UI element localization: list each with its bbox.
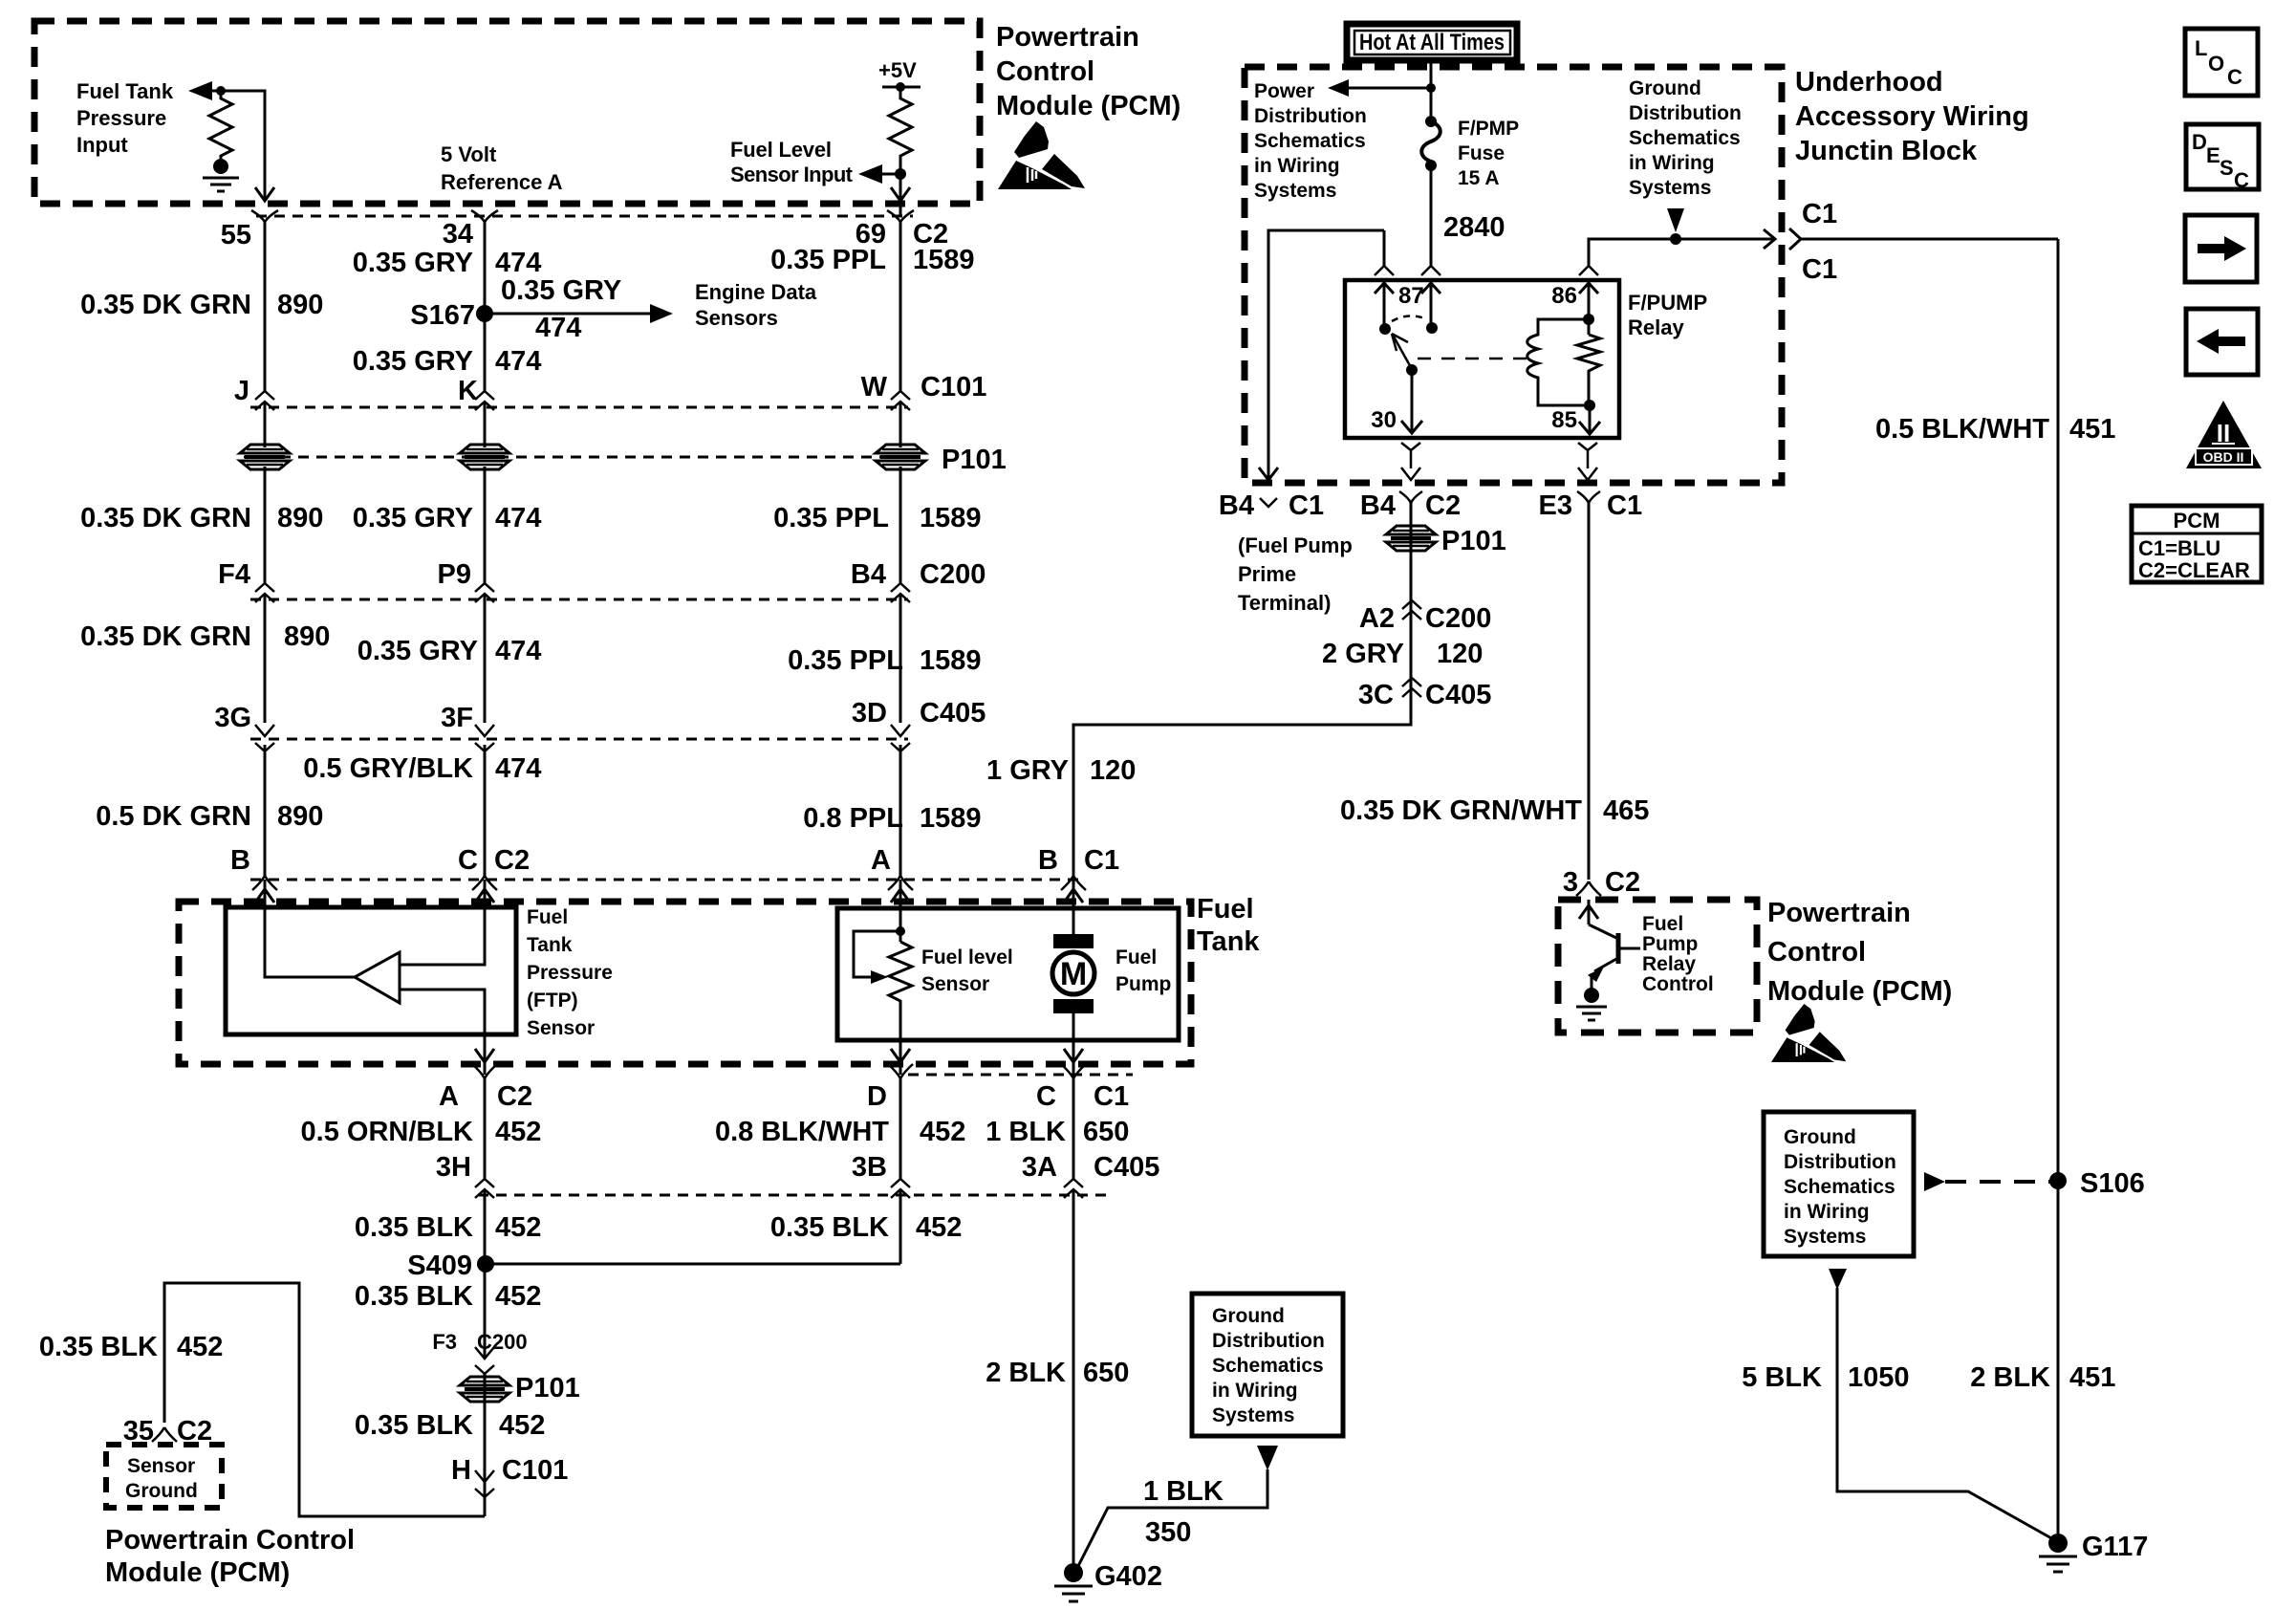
- label: Fuel Tank: [1197, 894, 1260, 957]
- svg-text:1 BLK: 1 BLK: [1143, 1476, 1224, 1507]
- svg-text:5 Volt: 5 Volt: [441, 142, 497, 166]
- label: 0.5 GRY/BLK 474: [303, 753, 541, 784]
- svg-text:C: C: [2234, 168, 2249, 192]
- label: 1 GRY 120: [986, 755, 1136, 786]
- svg-text:S106: S106: [2080, 1168, 2145, 1199]
- svg-text:890: 890: [284, 621, 330, 652]
- label: 0.35 PPL 1589 row3: [788, 645, 981, 676]
- dashed link: switch to coil: [1418, 358, 1527, 360]
- wire 4: C to 3A: [1072, 1078, 1075, 1179]
- label: 0.35 BLK 452 left: [355, 1212, 542, 1243]
- arrowhead right wiper: [871, 970, 888, 984]
- wire: B4 C2 to P101: [1073, 502, 1411, 878]
- wire 3: 3B stub to S409 branch: [899, 1189, 902, 1264]
- svg-text:Sensor: Sensor: [921, 973, 989, 995]
- label: 5 Volt Reference A: [441, 142, 563, 194]
- svg-text:C405: C405: [920, 698, 986, 729]
- label: 0.5 ORN/BLK 452: [301, 1117, 542, 1147]
- wire: fuel level sensor to D: [899, 1040, 902, 1075]
- pin 87a interior wire (from fuse): [1421, 282, 1440, 328]
- svg-text:87: 87: [1398, 283, 1424, 309]
- wire: S409 branch horizontal: [486, 1263, 900, 1266]
- motor: fuel pump M: [1052, 934, 1094, 1013]
- svg-text:H: H: [451, 1455, 471, 1486]
- connector line: PCM C2 connector (55/34/69): [256, 215, 913, 218]
- wire 3: D to 3B: [899, 1078, 902, 1179]
- svg-text:452: 452: [916, 1212, 962, 1243]
- svg-text:D: D: [867, 1081, 887, 1112]
- module box: Sensor Ground dashed: [106, 1445, 222, 1508]
- svg-text:C: C: [1036, 1081, 1056, 1112]
- svg-text:Pump: Pump: [1642, 933, 1698, 955]
- svg-text:Powertrain: Powertrain: [996, 22, 1139, 53]
- label: 0.35 DK GRN 890 upper: [80, 290, 323, 320]
- node: resistor top junction: [216, 86, 226, 96]
- arrowhead down at FTP output exit: [475, 1049, 494, 1062]
- connector bracket at pin 34: [471, 210, 498, 222]
- svg-text:5 BLK: 5 BLK: [1742, 1362, 1822, 1393]
- svg-text:in Wiring: in Wiring: [1212, 1380, 1298, 1402]
- svg-text:0.35 BLK: 0.35 BLK: [355, 1212, 473, 1243]
- svg-text:OBD II: OBD II: [2203, 449, 2244, 465]
- arrowhead right at junction block edge: [1764, 229, 1775, 249]
- connector chevrons at 3A (up): [1064, 1179, 1083, 1198]
- svg-text:C101: C101: [502, 1455, 568, 1486]
- svg-text:85: 85: [1551, 407, 1577, 433]
- svg-text:C2=CLEAR: C2=CLEAR: [2138, 558, 2250, 582]
- connector line: C405 (3H/3B/3A): [478, 1194, 1109, 1197]
- component box: FTP sensor: [226, 907, 516, 1034]
- svg-text:Pump: Pump: [1116, 973, 1171, 995]
- label: 0.35 DK GRN 890 row3: [80, 621, 330, 652]
- svg-text:Distribution: Distribution: [1212, 1330, 1325, 1352]
- ground: inside PCM (FTP): [203, 178, 239, 191]
- svg-text:C200: C200: [1425, 603, 1491, 634]
- svg-text:Distribution: Distribution: [1629, 102, 1742, 124]
- op-amp: FTP sensor amplifier triangle: [355, 952, 400, 1003]
- connector bracket at pin 55: [251, 210, 278, 222]
- label: 1 BLK 650: [986, 1117, 1129, 1147]
- svg-text:S: S: [2220, 156, 2234, 180]
- svg-text:Distribution: Distribution: [1254, 105, 1367, 127]
- svg-text:0.35 BLK: 0.35 BLK: [355, 1281, 473, 1312]
- svg-text:474: 474: [495, 248, 541, 278]
- svg-text:0.35 GRY: 0.35 GRY: [353, 503, 473, 533]
- svg-text:Fuel: Fuel: [1642, 913, 1683, 935]
- icon: ESD symbol right: [1771, 1004, 1846, 1062]
- svg-text:452: 452: [495, 1212, 541, 1243]
- label: Sensor Ground: [125, 1455, 198, 1502]
- svg-text:O: O: [2208, 52, 2224, 76]
- svg-text:Module (PCM): Module (PCM): [996, 91, 1180, 121]
- connector line: C405 (3G/3F/3D): [250, 738, 908, 741]
- connector line: fuel pump module connector C1: [908, 1074, 1133, 1077]
- arrowhead up at B pump entry: [1064, 889, 1083, 903]
- node: FTP resistor bottom dot: [213, 159, 228, 174]
- wire 3: B4 to 3D: [899, 594, 902, 723]
- node: +5V dot: [896, 82, 905, 92]
- svg-text:120: 120: [1090, 755, 1136, 786]
- splice S167: [476, 305, 493, 322]
- label: A2 C200: [1359, 603, 1491, 634]
- svg-text:Accessory Wiring: Accessory Wiring: [1795, 101, 2029, 132]
- ground G402: [1054, 1563, 1093, 1601]
- svg-text:15 A: 15 A: [1458, 167, 1500, 189]
- arrowhead up at A tank entry: [891, 889, 910, 903]
- label: 0.5 DK GRN 890: [96, 801, 323, 832]
- svg-text:0.5 GRY/BLK: 0.5 GRY/BLK: [303, 753, 473, 784]
- module box: Fuel Tank dashed outline: [179, 902, 1191, 1064]
- connector bracket at D (up): [888, 1064, 913, 1078]
- svg-text:452: 452: [495, 1117, 541, 1147]
- svg-text:Ground: Ground: [1212, 1305, 1285, 1327]
- svg-text:3C: 3C: [1358, 680, 1394, 710]
- svg-text:474: 474: [495, 346, 541, 377]
- wire: A into fuel level sensor: [899, 880, 902, 942]
- label: 2 BLK 451: [1970, 1362, 2115, 1393]
- label: 0.35 DK GRN 890 mid: [80, 503, 323, 533]
- svg-text:C405: C405: [1425, 680, 1491, 710]
- arrowhead triangle from Ground Distribution (top): [1667, 208, 1684, 232]
- connector chevrons at A2 (up): [1402, 600, 1421, 620]
- svg-text:465: 465: [1603, 795, 1649, 826]
- grommet P101 on wire 2: [460, 445, 509, 469]
- svg-text:0.8 BLK/WHT: 0.8 BLK/WHT: [715, 1117, 889, 1147]
- svg-text:C200: C200: [920, 559, 986, 590]
- nav box: arrow left: [2186, 309, 2258, 375]
- svg-text:S167: S167: [410, 300, 475, 331]
- svg-text:Control: Control: [1642, 973, 1714, 995]
- svg-text:Power: Power: [1254, 80, 1314, 102]
- svg-text:650: 650: [1083, 1117, 1129, 1147]
- svg-text:350: 350: [1145, 1517, 1191, 1548]
- wire: wiper loop: [854, 931, 900, 977]
- label: Engine Data Sensors: [695, 280, 817, 330]
- wire: C into FTP amp upper input: [400, 880, 485, 965]
- svg-text:120: 120: [1437, 639, 1483, 669]
- wire: 86 to junction block edge: [1589, 239, 1774, 266]
- wire: B into FTP sensor: [265, 880, 355, 977]
- label: Fuel Pump: [1116, 946, 1171, 995]
- arrowhead triangle below middle box: [1257, 1446, 1278, 1470]
- svg-text:0.35 DK GRN: 0.35 DK GRN: [80, 290, 251, 320]
- wire: C1 to right rail: [1800, 238, 2058, 241]
- connector bracket at 3 C2 (down): [1576, 881, 1601, 896]
- wire 2: 3F to C: [484, 745, 487, 878]
- svg-text:Distribution: Distribution: [1784, 1151, 1896, 1173]
- svg-text:Fuel Level: Fuel Level: [730, 138, 832, 162]
- svg-text:890: 890: [277, 503, 323, 533]
- arrowhead triangle below right box: [1829, 1269, 1847, 1290]
- wire: F3 to P101: [484, 1337, 487, 1516]
- svg-text:Terminal): Terminal): [1238, 591, 1331, 615]
- arrowhead down at B4 C1: [1259, 468, 1278, 480]
- arrowhead up at B tank entry: [255, 889, 274, 903]
- arrowhead down at pin 69: [891, 187, 910, 201]
- svg-text:452: 452: [495, 1281, 541, 1312]
- svg-text:1589: 1589: [920, 645, 982, 676]
- label: Powertrain Control Module (PCM) bottom-left: [105, 1525, 355, 1588]
- wire: fuse to relay 87: [1430, 165, 1433, 266]
- wire 4: 3A to G402: [1072, 1189, 1075, 1573]
- label: Fuel Tank Pressure Input: [76, 79, 174, 157]
- wire 1: J to P101: [264, 402, 267, 447]
- svg-text:P101: P101: [515, 1373, 580, 1403]
- wire 1: P101 to F4: [264, 467, 267, 583]
- label: 3C C405: [1358, 680, 1491, 710]
- svg-text:3: 3: [1563, 867, 1578, 898]
- svg-text:2 BLK: 2 BLK: [1970, 1362, 2050, 1393]
- label: 0.35 GRY 474 upper: [353, 248, 542, 278]
- label: Fuel Tank Pressure (FTP) Sensor: [527, 906, 613, 1039]
- svg-text:Fuel: Fuel: [527, 906, 568, 928]
- connector chevrons at 3H (up): [475, 1179, 494, 1198]
- wire: motor to C exit: [1072, 1013, 1075, 1075]
- grommet P101 right: [1386, 526, 1436, 551]
- module box: Powertrain Control Module (PCM) top-left dashed outline: [34, 21, 980, 204]
- svg-text:P101: P101: [1441, 526, 1506, 556]
- switch blade with arrow: [1392, 334, 1418, 376]
- connector chevrons at J: [255, 391, 274, 410]
- label: Powertrain Control Module (PCM) right: [1767, 898, 1952, 1007]
- svg-text:P9: P9: [438, 559, 471, 590]
- svg-text:K: K: [458, 376, 478, 406]
- svg-text:C2: C2: [1425, 490, 1461, 521]
- node: power distribution tap dot: [1426, 83, 1436, 93]
- svg-text:Schematics: Schematics: [1629, 127, 1741, 149]
- wire: to Power Distribution arrow: [1338, 87, 1431, 90]
- arrowhead down at D exit: [891, 1049, 910, 1062]
- svg-text:Relay: Relay: [1642, 953, 1696, 975]
- svg-text:C2: C2: [1605, 867, 1640, 898]
- connector chevrons at B4: [891, 583, 910, 602]
- connector bracket at B pump (down): [1061, 876, 1086, 890]
- label: 5 BLK 1050: [1742, 1362, 1909, 1393]
- svg-text:in Wiring: in Wiring: [1629, 152, 1715, 174]
- node: relay 87a contact dot: [1426, 322, 1438, 334]
- svg-text:A: A: [871, 845, 891, 876]
- module box: PCM fuel pump relay control dashed: [1558, 900, 1757, 1033]
- svg-text:452: 452: [920, 1117, 965, 1147]
- label: 0.35 DK GRN/WHT 465: [1340, 795, 1649, 826]
- transistor: fuel pump relay control driver: [1579, 900, 1640, 989]
- svg-text:Ground: Ground: [125, 1480, 198, 1502]
- wire 2: K to P101: [484, 402, 487, 447]
- label: 0.8 BLK/WHT 452: [715, 1117, 965, 1147]
- svg-text:3F: 3F: [441, 703, 473, 733]
- connector chevrons at 3D (down): [891, 725, 910, 751]
- svg-text:C1: C1: [1802, 254, 1837, 285]
- svg-text:451: 451: [2069, 1362, 2115, 1393]
- svg-text:in Wiring: in Wiring: [1784, 1201, 1870, 1223]
- arrowhead left at Fuel Tank Pressure Input: [188, 81, 212, 100]
- svg-text:0.35 DK GRN: 0.35 DK GRN: [80, 621, 251, 652]
- pin 86 interior wire with up arrow: [1579, 282, 1598, 335]
- grommet P101 lower: [460, 1377, 509, 1402]
- node: fuel level junction dot: [895, 168, 906, 180]
- svg-text:Prime: Prime: [1238, 562, 1296, 586]
- splice S106: [2049, 1172, 2067, 1189]
- svg-text:0.8 PPL: 0.8 PPL: [803, 803, 903, 834]
- label: 0.35 GRY 474 row3: [357, 636, 542, 666]
- svg-text:2 BLK: 2 BLK: [986, 1358, 1066, 1388]
- svg-text:0.35 BLK: 0.35 BLK: [770, 1212, 889, 1243]
- svg-text:Underhood: Underhood: [1795, 67, 1943, 98]
- svg-text:0.35 DK GRN: 0.35 DK GRN: [80, 503, 251, 533]
- arrowhead right at Engine Data Sensors: [650, 304, 673, 323]
- svg-text:(Fuel Pump: (Fuel Pump: [1238, 533, 1353, 557]
- svg-text:Schematics: Schematics: [1784, 1176, 1895, 1198]
- svg-text:Sensor: Sensor: [127, 1455, 195, 1477]
- connector chevrons at 3F (down): [475, 725, 494, 751]
- connector chevrons at P9: [475, 583, 494, 602]
- label: Fuel Pump Relay Control: [1642, 913, 1714, 995]
- component box: Ground Distribution Schematics (right): [1764, 1112, 1914, 1256]
- svg-text:3B: 3B: [852, 1152, 887, 1183]
- svg-text:C1: C1: [1289, 490, 1324, 521]
- svg-text:Powertrain Control: Powertrain Control: [105, 1525, 355, 1556]
- svg-text:0.35 GRY: 0.35 GRY: [501, 275, 621, 306]
- label: Underhood Accessory Wiring Junctin Block: [1795, 67, 2029, 166]
- svg-text:650: 650: [1083, 1358, 1129, 1388]
- svg-text:Sensor: Sensor: [527, 1017, 595, 1039]
- label: 0.5 BLK/WHT 451: [1875, 414, 2115, 445]
- svg-text:Tank: Tank: [527, 934, 573, 956]
- node: coil top dot: [1583, 314, 1594, 325]
- svg-text:A2: A2: [1359, 603, 1395, 634]
- label: 2 GRY 120: [1322, 639, 1483, 669]
- svg-text:Systems: Systems: [1212, 1404, 1294, 1426]
- connector bracket at B4 C2 (up): [1399, 491, 1422, 503]
- node: fuel level wiper junction: [896, 926, 905, 936]
- svg-text:+5V: +5V: [878, 58, 917, 82]
- wire: H C101 route to sensor ground: [164, 1283, 485, 1516]
- label: Ground Distribution Schematics in Wiring Systems (right): [1784, 1126, 1896, 1248]
- legend box: PCM connectors: [2132, 506, 2262, 582]
- connector chevrons at 3B (up): [891, 1179, 910, 1198]
- svg-text:Powertrain: Powertrain: [1767, 898, 1911, 928]
- connector bracket at 35 (down): [152, 1427, 177, 1442]
- svg-text:in Wiring: in Wiring: [1254, 155, 1340, 177]
- arrowhead down at F3: [475, 1347, 494, 1374]
- svg-text:0.5 BLK/WHT: 0.5 BLK/WHT: [1875, 414, 2049, 445]
- svg-text:Systems: Systems: [1629, 177, 1711, 199]
- label: 0.35 BLK 452 right: [770, 1212, 963, 1243]
- connector line: C200 (F4/P9/B4): [250, 598, 908, 601]
- svg-text:0.35 PPL: 0.35 PPL: [773, 503, 889, 533]
- resistor R-ftp pull-up: [209, 91, 232, 159]
- svg-text:S409: S409: [407, 1251, 472, 1281]
- dashed wire: box to S106: [1945, 1180, 2051, 1184]
- svg-text:474: 474: [495, 503, 541, 533]
- svg-text:Tank: Tank: [1197, 926, 1260, 957]
- relay coil resistor: [1577, 335, 1600, 405]
- svg-text:Sensors: Sensors: [695, 306, 778, 330]
- label: 0.8 PPL 1589: [803, 803, 981, 834]
- connector line: P101 dashed: [244, 456, 903, 459]
- label: 2 BLK 650: [986, 1358, 1129, 1388]
- svg-text:G402: G402: [1094, 1561, 1162, 1592]
- svg-text:E: E: [2206, 143, 2220, 167]
- svg-text:Fuel Tank: Fuel Tank: [76, 79, 174, 103]
- label: 0.35 BLK 452 below S409: [355, 1281, 542, 1312]
- svg-text:474: 474: [495, 753, 541, 784]
- svg-text:451: 451: [2069, 414, 2115, 445]
- arrowhead down pin 30: [1401, 421, 1422, 433]
- svg-text:B: B: [230, 845, 250, 876]
- wire: +5V tick: [882, 86, 921, 89]
- label: 0.35 BLK 452 bottom: [355, 1410, 546, 1441]
- svg-text:Control: Control: [1767, 937, 1866, 968]
- connector chevrons at F4: [255, 583, 274, 602]
- splice S409: [477, 1255, 494, 1273]
- connector bracket at A (down): [888, 876, 913, 890]
- label: Fuel Level Sensor Input: [730, 138, 854, 186]
- svg-text:W: W: [861, 372, 888, 402]
- label: 0.35 PPL 1589 mid: [773, 503, 981, 533]
- svg-text:F4: F4: [218, 559, 250, 590]
- connector bracket at A below tank (up): [472, 1064, 497, 1078]
- svg-text:C1=BLU: C1=BLU: [2138, 536, 2220, 560]
- connector bracket at E3 C1 (up): [1577, 491, 1600, 503]
- arrowhead down at C pump exit: [1064, 1049, 1083, 1062]
- connector chevrons at 3C (up): [1402, 678, 1421, 697]
- wire: FTP input horizontal: [196, 91, 265, 201]
- svg-text:3D: 3D: [852, 698, 887, 729]
- wire 1: 55 to J (0.35 DK GRN 890): [264, 220, 267, 391]
- wire: G402 branch 1 BLK 350: [1078, 1469, 1267, 1566]
- label: 3 C2: [1563, 867, 1640, 898]
- svg-text:B: B: [1038, 845, 1058, 876]
- svg-text:D: D: [2192, 130, 2207, 154]
- connector bracket at B4 C1 (down small): [1260, 498, 1277, 507]
- connector chevron 87 wire at relay top: [1375, 266, 1394, 275]
- connector bracket at pin 69: [887, 210, 914, 222]
- svg-text:P101: P101: [942, 445, 1007, 475]
- wire 2: A to 3H: [484, 1078, 487, 1179]
- label: 0.35 PPL 1589 upper: [770, 245, 974, 275]
- label: Powertrain Control Module (PCM) top: [996, 22, 1180, 121]
- wire: fuse feed from Hot At All Times: [1430, 59, 1433, 116]
- arrowhead left at Fuel Level Sensor Input: [858, 164, 882, 184]
- svg-text:C101: C101: [921, 372, 986, 402]
- label: F/PUMP Relay: [1628, 291, 1707, 339]
- nav box: arrow right: [2185, 215, 2257, 282]
- dashed arc: relay contact alternate: [1392, 315, 1427, 321]
- arrowhead down pin 85: [1579, 422, 1600, 434]
- svg-text:86: 86: [1551, 283, 1577, 309]
- svg-text:452: 452: [177, 1332, 223, 1362]
- svg-text:PCM: PCM: [2174, 509, 2220, 533]
- wire 3: 69 to W (0.35 PPL 1589): [899, 220, 902, 391]
- arrowhead left at Power Distribution: [1328, 79, 1349, 97]
- svg-text:B4: B4: [1360, 490, 1396, 521]
- wire: E3 to PCM relay control: [1588, 502, 1591, 880]
- svg-text:474: 474: [495, 636, 541, 666]
- svg-text:0.35 BLK: 0.35 BLK: [39, 1332, 158, 1362]
- svg-text:Schematics: Schematics: [1212, 1355, 1324, 1377]
- label: Fuel level Sensor: [921, 946, 1013, 995]
- svg-text:Module (PCM): Module (PCM): [1767, 976, 1952, 1007]
- svg-text:452: 452: [499, 1410, 545, 1441]
- connector chevron 86 above relay: [1579, 266, 1598, 275]
- resistor: fuel level sensor element: [889, 942, 912, 1040]
- svg-text:1 BLK: 1 BLK: [986, 1117, 1066, 1147]
- wire: pin 30 to box bottom: [1401, 443, 1420, 480]
- module box: Underhood Accessory Wiring Junction Block dashed: [1245, 67, 1782, 483]
- svg-text:Sensor Input: Sensor Input: [730, 163, 854, 186]
- svg-text:30: 30: [1371, 407, 1397, 433]
